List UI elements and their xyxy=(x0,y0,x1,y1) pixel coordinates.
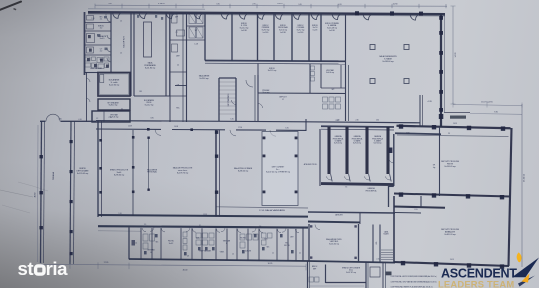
svg-text:2.1: 2.1 xyxy=(100,19,103,21)
svg-text:CORP PRINCIPAL: HEKTOR SOMERK,: CORP PRINCIPAL: HEKTOR SOMERK, ARIE DESF… xyxy=(391,275,437,278)
wall below mid-right room (corridor) xyxy=(394,207,445,208)
wall: band left end xyxy=(128,228,130,260)
svg-text:9.35: 9.35 xyxy=(494,111,498,113)
annex: depozit room xyxy=(325,265,327,284)
svg-text:ZI: ZI xyxy=(282,99,284,101)
partitions x170-187 xyxy=(170,39,187,41)
svg-text:25: 25 xyxy=(448,133,450,135)
dense utility cluster below column A xyxy=(85,57,90,61)
door arcs along top wall xyxy=(113,12,124,18)
svg-text:46.00: 46.00 xyxy=(183,269,188,271)
svg-text:17.96: 17.96 xyxy=(238,127,242,129)
svg-text:5.95: 5.95 xyxy=(161,3,164,5)
svg-text:DEP.: DEP. xyxy=(176,56,180,58)
annex small dim xyxy=(310,285,364,287)
svg-text:TERASA: TERASA xyxy=(52,171,55,180)
svg-text:14.08: 14.08 xyxy=(174,126,178,128)
svg-text:1.4: 1.4 xyxy=(135,243,137,245)
svg-text:SEF: SEF xyxy=(313,268,316,270)
svg-text:S=28.6 mp: S=28.6 mp xyxy=(199,78,208,80)
svg-text:1.1: 1.1 xyxy=(272,253,274,255)
svg-text:DEP: DEP xyxy=(175,17,178,19)
svg-text:5.45: 5.45 xyxy=(58,118,61,120)
connector walls x420 xyxy=(419,95,421,126)
wall: corridor right xyxy=(130,12,132,96)
svg-text:ria: ria xyxy=(46,258,69,279)
svg-text:S=316.05 mp: S=316.05 mp xyxy=(444,166,455,168)
svg-text:8.95: 8.95 xyxy=(406,132,409,134)
dimension: far right vertical xyxy=(521,104,523,267)
svg-text:+2.85: +2.85 xyxy=(427,101,432,103)
wall: right block top xyxy=(397,126,511,128)
room below bucatarie xyxy=(98,99,130,110)
svg-text:CAMERA: CAMERA xyxy=(353,135,361,138)
wall: corridor top edge xyxy=(96,121,306,122)
wall: right block right exterior xyxy=(509,128,512,266)
svg-text:S=305.20 mp: S=305.20 mp xyxy=(444,234,455,236)
svg-text:S=4.5: S=4.5 xyxy=(100,38,105,40)
wall: x98 vertical xyxy=(97,121,99,217)
door arcs column A into corridor xyxy=(107,18,111,22)
svg-text:HOL ACCES: HOL ACCES xyxy=(122,36,125,48)
svg-text:ATELIER: ATELIER xyxy=(335,213,343,216)
svg-text:S=88.20 mp: S=88.20 mp xyxy=(238,171,248,173)
svg-text:3.60: 3.60 xyxy=(108,3,111,5)
svg-text:S=9.00 mp: S=9.00 mp xyxy=(353,143,361,145)
lower mid rooms xyxy=(257,64,259,94)
wall: hall divider x216 with pilasters xyxy=(215,130,217,217)
svg-text:6.35: 6.35 xyxy=(285,128,288,130)
wall: top exterior xyxy=(88,12,445,14)
svg-text:VEST.: VEST. xyxy=(220,252,225,254)
svg-text:h=2.8: h=2.8 xyxy=(313,30,318,32)
door arcs from corridor into halls xyxy=(155,129,161,135)
wall x345 vertical (hall left) xyxy=(345,14,347,121)
watermark: storia logo bottom-left xyxy=(18,258,69,279)
svg-text:PREPARARE: PREPARARE xyxy=(144,64,156,67)
svg-text:2.95: 2.95 xyxy=(252,4,255,6)
wall x439 vertical xyxy=(439,127,441,196)
svg-text:25.07: 25.07 xyxy=(277,3,283,5)
svg-text:SPATIU: SPATIU xyxy=(79,167,86,170)
svg-text:WC: WC xyxy=(332,89,336,91)
wall: atelier top xyxy=(308,212,395,213)
svg-text:ATELIER PROD.: ATELIER PROD. xyxy=(304,163,318,166)
svg-text:h=2.80: h=2.80 xyxy=(298,32,304,34)
band partitions xyxy=(140,228,142,259)
wall: thin x133 with pilasters xyxy=(132,130,134,216)
wall: bottom band top xyxy=(98,226,308,227)
svg-text:15.69: 15.69 xyxy=(128,126,132,128)
svg-text:h=2.80: h=2.80 xyxy=(263,32,269,34)
wall: room B left xyxy=(133,12,135,96)
svg-text:12.35: 12.35 xyxy=(203,214,207,216)
svg-text:3.35: 3.35 xyxy=(216,3,219,5)
svg-text:SALA DE PRODUCTIE: SALA DE PRODUCTIE xyxy=(173,166,193,169)
wall: x170 vertical xyxy=(169,12,171,122)
svg-text:1.20: 1.20 xyxy=(92,18,95,20)
wall right of stairs xyxy=(254,75,256,121)
svg-text:WC: WC xyxy=(156,242,160,244)
svg-text:2.8: 2.8 xyxy=(259,226,261,228)
dimension: vertical right of hall xyxy=(452,6,454,104)
door arcs at left top xyxy=(46,114,53,121)
svg-text:SALA: SALA xyxy=(148,61,154,64)
wall: room B right xyxy=(165,12,167,96)
svg-text:2.10 SALA VANZARE: 2.10 SALA VANZARE xyxy=(259,209,286,212)
wall: halls bottom xyxy=(98,215,308,217)
svg-text:S=22.30 mp: S=22.30 mp xyxy=(109,85,119,87)
svg-text:4.10: 4.10 xyxy=(78,119,81,121)
dimension: horizontal above right block xyxy=(453,105,522,106)
photo artifact: dark diagonal mark top-left xyxy=(0,2,21,11)
svg-text:S=8.6 mp: S=8.6 mp xyxy=(326,72,334,74)
wall: mid rooms bottom y60 xyxy=(205,60,345,63)
cold rooms top wall xyxy=(321,125,394,128)
more dark blobs in utility cluster xyxy=(87,58,90,61)
svg-text:2.9: 2.9 xyxy=(144,224,146,226)
svg-text:2.2: 2.2 xyxy=(100,51,103,53)
right block inner line xyxy=(397,135,509,137)
svg-text:BUCATARIE: BUCATARIE xyxy=(109,78,120,81)
svg-text:S=107.42 mp 2 PERETE mp: S=107.42 mp 2 PERETE mp xyxy=(266,172,290,174)
wall: band bottom xyxy=(129,259,308,261)
svg-text:SALA EVENIMENTE: SALA EVENIMENTE xyxy=(379,55,397,58)
svg-text:AMBALATE: AMBALATE xyxy=(445,231,456,234)
dim: left vertical xyxy=(37,125,40,262)
svg-text:FRIGORIFICA: FRIGORIFICA xyxy=(366,189,378,192)
svg-text:HOL: HOL xyxy=(376,241,378,244)
svg-text:1.2: 1.2 xyxy=(232,254,234,256)
stub x306 xyxy=(305,119,307,131)
band door arcs xyxy=(142,228,146,232)
thick wall below cold rooms xyxy=(321,184,394,185)
svg-text:h=2.80: h=2.80 xyxy=(329,30,335,32)
svg-text:15.07 load 9m: 15.07 load 9m xyxy=(481,102,493,104)
svg-text:S=11.2 mp: S=11.2 mp xyxy=(268,70,277,72)
pilasters on halls top wall xyxy=(147,128,150,131)
svg-text:S=37.87 mp: S=37.87 mp xyxy=(346,272,356,274)
svg-text:CAMERA: CAMERA xyxy=(334,135,342,138)
svg-text:2.30: 2.30 xyxy=(335,120,338,122)
svg-text:4.20: 4.20 xyxy=(338,4,341,6)
svg-text:1.2: 1.2 xyxy=(96,118,98,120)
svg-text:h=2.80: h=2.80 xyxy=(241,30,247,32)
svg-text:frig: frig xyxy=(433,166,435,169)
room: bottom-left of block xyxy=(92,111,130,122)
room: BUCATARIE (thick walls) xyxy=(98,73,130,97)
pilasters on top wall xyxy=(355,11,359,15)
svg-text:3.1: 3.1 xyxy=(199,225,201,227)
svg-text:2.2: 2.2 xyxy=(105,14,107,16)
corridor door arcs y95-120 xyxy=(232,100,237,105)
svg-text:S=120.45 mp: S=120.45 mp xyxy=(77,173,88,175)
watermark: ASCENDENT logo bottom-right xyxy=(438,252,539,288)
table in room B xyxy=(144,22,152,57)
wall: column A right / corridor left xyxy=(110,12,112,72)
platform zone rect x262-298 xyxy=(262,132,298,206)
wall: halls top edge xyxy=(96,128,161,130)
svg-text:2.4: 2.4 xyxy=(177,65,179,67)
svg-text:11.90: 11.90 xyxy=(393,4,399,6)
svg-text:F: F xyxy=(226,243,227,245)
svg-text:FILTRU: FILTRU xyxy=(240,238,246,240)
svg-text:S=98.30 mp: S=98.30 mp xyxy=(114,175,124,177)
svg-text:S=12.2 mp: S=12.2 mp xyxy=(145,105,154,107)
yellow flame below arrow xyxy=(522,274,530,283)
svg-text:17.35: 17.35 xyxy=(104,262,109,264)
annex: right corridor walls xyxy=(365,262,367,288)
dimension line: top overall xyxy=(95,5,447,6)
room mid-right left wall xyxy=(393,134,395,186)
svg-text:26.35: 26.35 xyxy=(453,123,457,125)
svg-text:LEADERS TEAM: LEADERS TEAM xyxy=(438,278,514,288)
yellow drop above xyxy=(517,252,522,262)
svg-text:FILTRU: FILTRU xyxy=(284,245,291,247)
fixtures near x308-319 xyxy=(311,66,315,70)
wc cluster x322-340 xyxy=(340,65,342,88)
svg-text:CORP PRINCIPAL: GRUP SANITAR,: CORP PRINCIPAL: GRUP SANITAR, ARIE DESFA… xyxy=(391,281,437,284)
svg-text:DEP.: DEP. xyxy=(290,237,294,239)
svg-text:S=6.2: S=6.2 xyxy=(169,243,174,245)
wall: right block bottom xyxy=(394,262,509,266)
svg-text:S=9.00 mp: S=9.00 mp xyxy=(334,143,342,145)
svg-text:4.95: 4.95 xyxy=(414,209,417,211)
svg-text:1.5: 1.5 xyxy=(120,21,122,23)
svg-text:HOL: HOL xyxy=(176,108,180,110)
wall: right block middle xyxy=(394,194,510,197)
band fixtures cluster 2 (wc) xyxy=(183,232,187,237)
svg-text:C.18: C.18 xyxy=(194,44,198,46)
band dark fixture blobs xyxy=(144,251,147,254)
svg-text:S=8.10 mp: S=8.10 mp xyxy=(109,105,118,107)
arrow dart xyxy=(512,258,539,278)
svg-text:2.30: 2.30 xyxy=(355,120,358,122)
fixtures x170-187 xyxy=(172,14,178,23)
svg-text:h=2.80: h=2.80 xyxy=(280,32,286,34)
fixtures in column A xyxy=(87,16,94,21)
pilasters on x100 wall xyxy=(99,139,102,142)
svg-text:st: st xyxy=(18,258,34,279)
svg-text:3.45: 3.45 xyxy=(298,4,301,6)
svg-text:24.15: 24.15 xyxy=(450,259,454,261)
thin line above halls bottom wall xyxy=(216,207,308,208)
svg-text:25.30 ml: 25.30 ml xyxy=(524,173,526,182)
svg-text:1.85: 1.85 xyxy=(139,91,142,93)
svg-text:7.3: 7.3 xyxy=(345,187,347,189)
band fixtures cluster 4 xyxy=(262,233,267,238)
svg-text:S=9.00 mp: S=9.00 mp xyxy=(374,143,382,145)
svg-text:WC: WC xyxy=(267,247,271,249)
corridor walls x373-380 in band right part xyxy=(372,225,374,262)
band fixtures cluster 1 xyxy=(143,234,148,241)
svg-text:S=178.70 mp: S=178.70 mp xyxy=(177,173,188,175)
svg-text:DUSURI: DUSURI xyxy=(245,251,252,253)
photo artifact: faint scratches on left gray area xyxy=(0,190,33,197)
wall: left section y121 with door opening xyxy=(40,120,46,122)
svg-text:1.5: 1.5 xyxy=(120,53,122,55)
svg-text:7.45: 7.45 xyxy=(108,117,111,119)
room column A partitions xyxy=(85,22,112,24)
stair room xyxy=(218,78,220,121)
svg-text:9.10: 9.10 xyxy=(118,213,121,215)
stairs hatch x378-391 xyxy=(381,249,393,251)
wall: x183-187 double vertical xyxy=(182,12,184,122)
svg-text:S=41.80 mp: S=41.80 mp xyxy=(145,68,155,70)
svg-text:PERSONAL: PERSONAL xyxy=(147,171,157,174)
room mid-right top wall xyxy=(395,133,441,134)
cold room thick walls xyxy=(327,127,330,174)
svg-text:S=55.30 mp: S=55.30 mp xyxy=(329,244,339,246)
dimension line: top-left secondary xyxy=(88,8,205,10)
svg-text:S=248.60 mp: S=248.60 mp xyxy=(382,61,393,63)
band fixtures cluster 3 xyxy=(240,234,245,240)
svg-text:2.1: 2.1 xyxy=(299,253,301,255)
svg-text:14.30: 14.30 xyxy=(455,52,457,58)
wall: atelier bottom xyxy=(308,221,360,224)
svg-text:DUS: DUS xyxy=(196,238,199,240)
svg-text:3.2: 3.2 xyxy=(100,28,103,30)
annex: left walls xyxy=(302,228,304,261)
svg-text:10.35: 10.35 xyxy=(268,263,273,265)
svg-text:DEPOZITARE: DEPOZITARE xyxy=(77,170,90,173)
svg-text:carne lucru: carne lucru xyxy=(178,169,187,172)
svg-text:46.80: 46.80 xyxy=(35,193,37,198)
wc stalls grid xyxy=(189,14,196,24)
wall: right block left (lower room) xyxy=(393,196,395,263)
svg-text:3.80: 3.80 xyxy=(150,118,153,120)
svg-text:2.30: 2.30 xyxy=(376,120,379,122)
wall: left block lower edge xyxy=(85,72,99,74)
hall: right wall with pilasters xyxy=(440,14,442,127)
small fixture far-left band room xyxy=(132,240,136,246)
dimension: second short xyxy=(470,113,522,116)
hall interior columns xyxy=(370,45,375,50)
room SPATIU x309-359 xyxy=(308,224,310,262)
wall: left exterior with pilasters xyxy=(41,121,42,263)
svg-text:SALA PRELUCRARE: SALA PRELUCRARE xyxy=(234,167,253,170)
door arcs corridor to band xyxy=(150,227,154,231)
mid room partitions xyxy=(204,13,206,61)
svg-text:0.9: 0.9 xyxy=(187,256,189,258)
svg-text:CAMERA: CAMERA xyxy=(374,135,382,138)
wall: terrace right / window mullion wall xyxy=(70,121,71,264)
svg-text:5.30: 5.30 xyxy=(230,119,233,121)
svg-text:SCARA ACCES: SCARA ACCES xyxy=(227,94,230,107)
marks in room B top xyxy=(137,15,139,18)
cold rooms vestibule wall xyxy=(319,129,321,186)
dimension: bottom overall xyxy=(41,264,306,266)
svg-text:SPATIU PRODUCTIE: SPATIU PRODUCTIE xyxy=(110,168,129,171)
wall: partial x148 xyxy=(148,138,150,190)
svg-text:CASA: CASA xyxy=(384,231,389,234)
svg-text:S. MARE: S. MARE xyxy=(384,58,393,61)
svg-text:2.20: 2.20 xyxy=(376,259,379,261)
room B lower part xyxy=(134,95,170,97)
wall: top-left block exterior left xyxy=(84,12,86,75)
